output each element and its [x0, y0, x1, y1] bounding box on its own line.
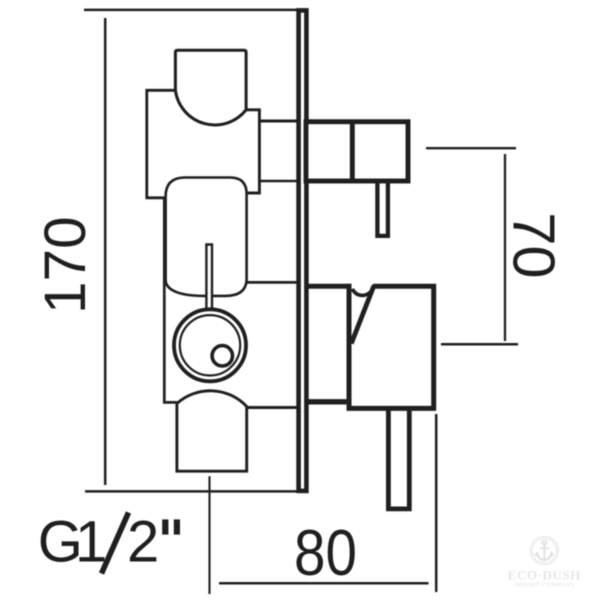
- wire top extension tick (170 top): [84, 9, 297, 12]
- connector line second: [259, 180, 297, 183]
- body right column: [246, 110, 259, 193]
- handle box: [349, 284, 434, 409]
- svg-text:170: 170: [33, 216, 98, 314]
- watermark anchor: [536, 541, 553, 561]
- dimension line 70: [504, 154, 506, 341]
- svg-text:2: 2: [127, 510, 159, 575]
- lower inlet shape: [176, 391, 249, 471]
- svg-text:IMPORT COMPANY: IMPORT COMPANY: [514, 582, 575, 588]
- body upper rectangle: [147, 90, 176, 198]
- dome bottom arc: [175, 90, 246, 125]
- cartridge rounded box: [166, 178, 247, 296]
- knob inner ring: [180, 315, 240, 375]
- pin below valve box: [377, 182, 388, 236]
- knob small circle: [212, 346, 232, 366]
- dimension tick 70 bottom: [441, 343, 518, 346]
- handle lever arc: [352, 289, 372, 295]
- wall plate: [299, 10, 307, 491]
- connector line top: [259, 120, 296, 123]
- handle connector top: [306, 284, 352, 289]
- handle lever diagonal: [351, 286, 374, 344]
- svg-text:70: 70: [500, 212, 567, 278]
- handle stem: [388, 407, 409, 509]
- body left lower edge: [164, 198, 177, 403]
- connector line third: [246, 281, 296, 284]
- watermark rope ring: [531, 537, 558, 564]
- valve box top right: [306, 122, 408, 181]
- label G1/2" quote mark: [162, 519, 168, 534]
- cartridge stem: [206, 245, 212, 311]
- connector line bottom: [247, 406, 297, 409]
- extension line 80 right: [435, 414, 438, 592]
- dimension tick 70 top: [426, 147, 516, 149]
- handle connector bottom: [306, 399, 349, 404]
- wire bottom extension tick (170 bottom): [85, 490, 297, 493]
- knob outer circle: [174, 309, 246, 381]
- dimension line 80: [219, 582, 429, 585]
- dimension line 170: [104, 18, 107, 485]
- svg-text:80: 80: [294, 516, 357, 589]
- dome cap: [175, 50, 246, 110]
- svg-text:ECO·DUSH: ECO·DUSH: [508, 568, 581, 583]
- valve box divider: [350, 122, 355, 181]
- extension line G1/2: [208, 476, 210, 594]
- label G1/2" slash: [102, 513, 129, 574]
